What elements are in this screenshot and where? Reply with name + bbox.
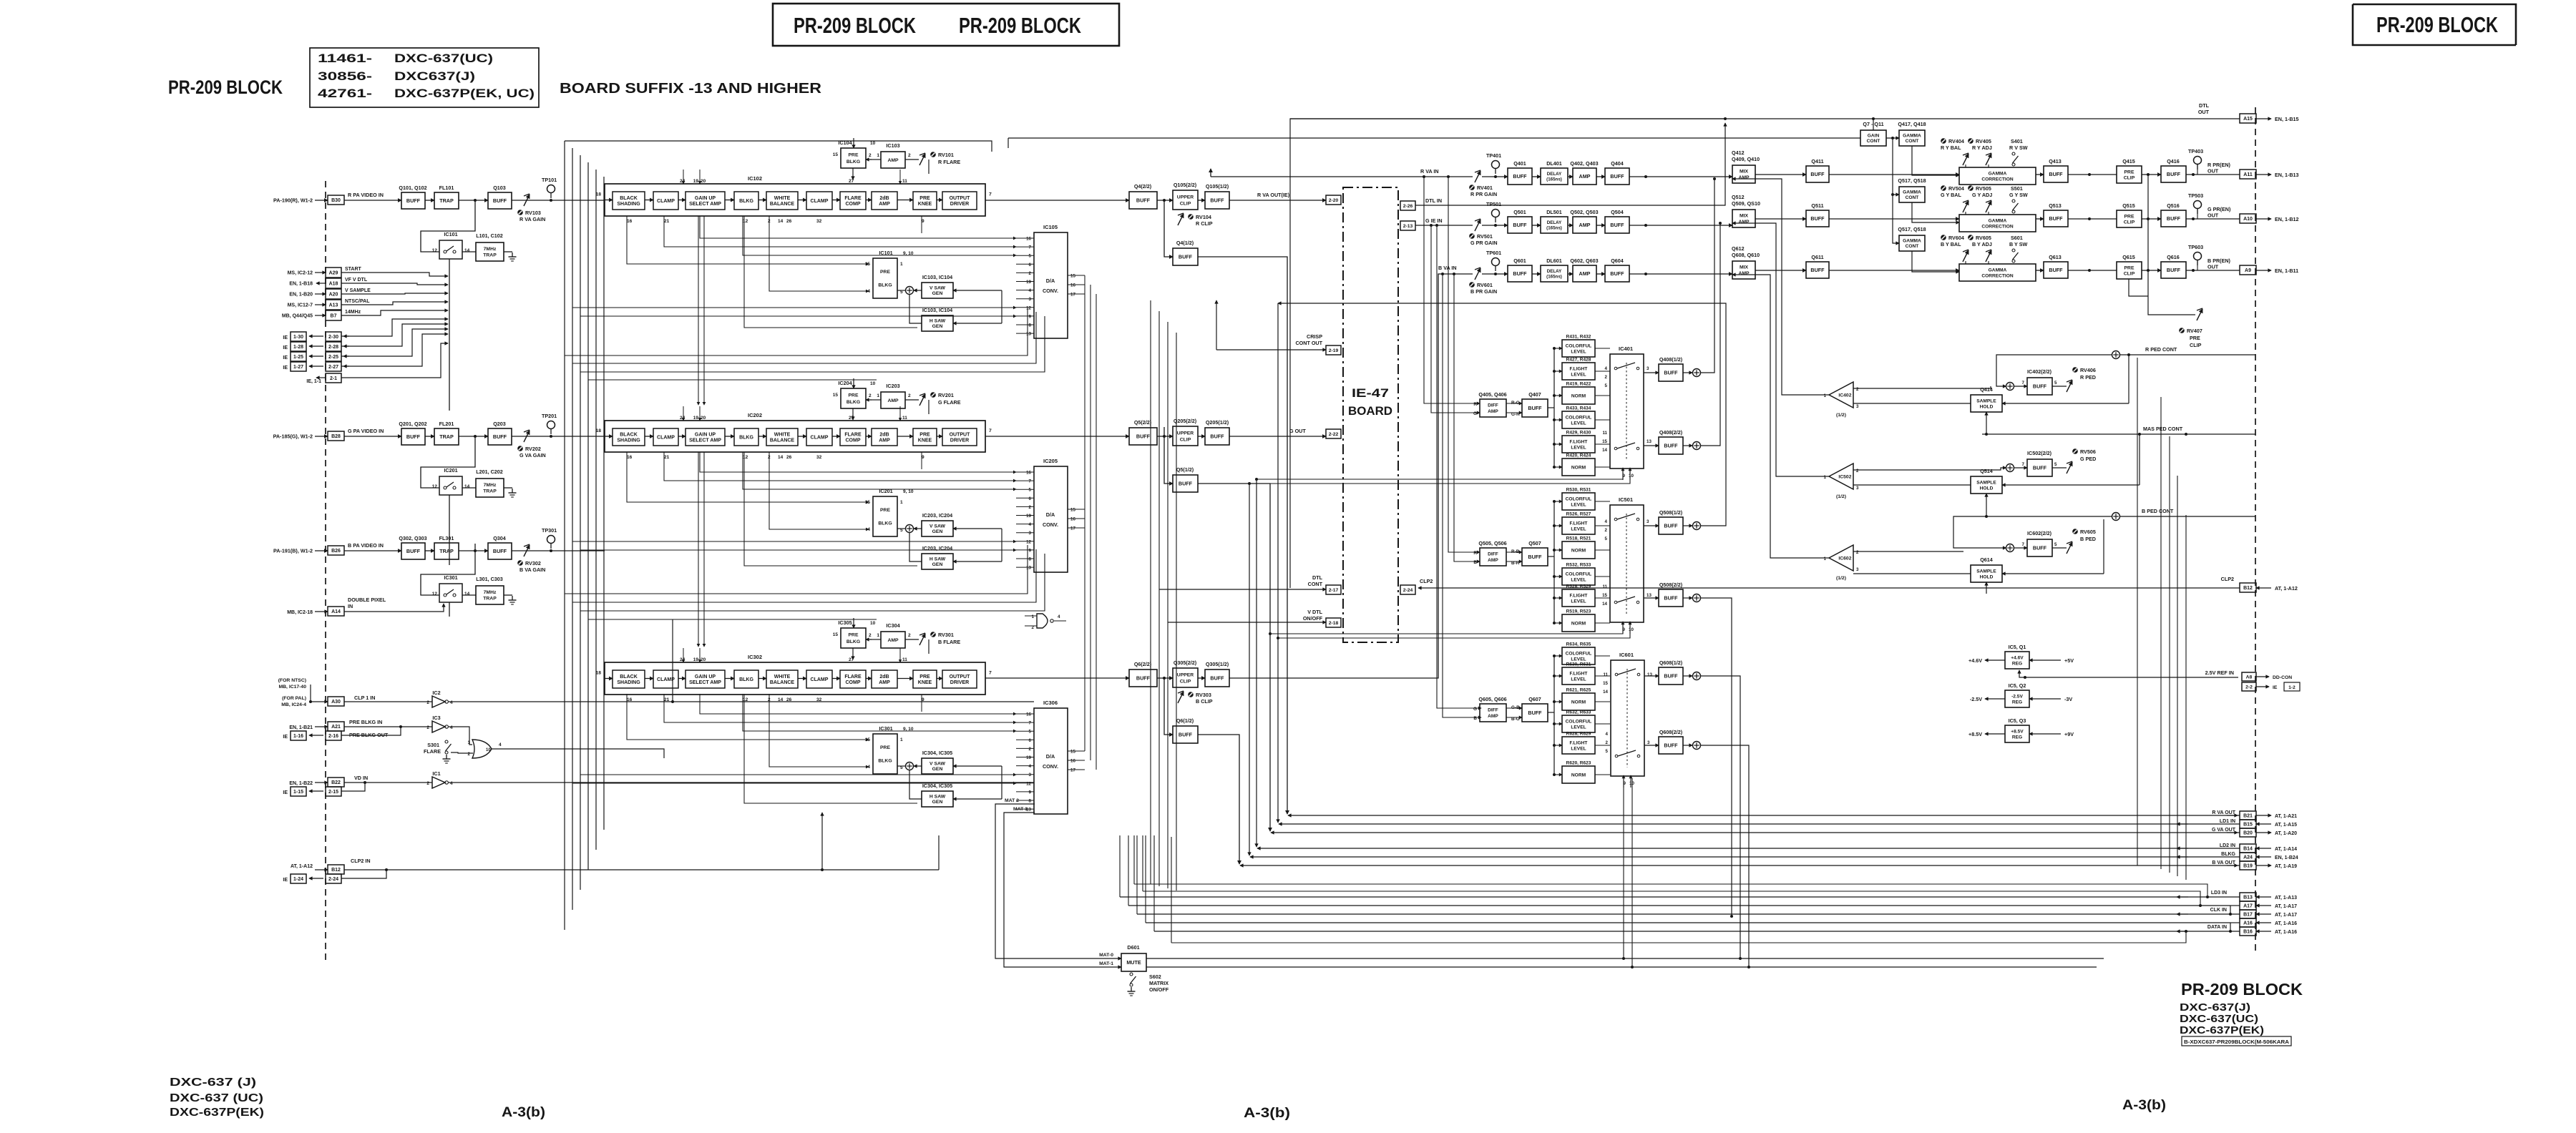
svg-text:2-24: 2-24 [1403,588,1413,593]
svg-text:IC203: IC203 [886,383,899,389]
svg-text:A-3(b): A-3(b) [1244,1106,1290,1121]
svg-text:9: 9 [1029,790,1032,795]
svg-text:4: 4 [450,700,453,705]
svg-text:GEN: GEN [932,767,943,772]
svg-text:LEVEL: LEVEL [1571,599,1586,604]
svg-text:LEVEL: LEVEL [1571,526,1586,531]
svg-text:32: 32 [816,697,822,702]
svg-text:IC3: IC3 [432,715,440,721]
svg-text:7: 7 [1029,721,1032,726]
svg-text:24: 24 [680,179,686,184]
svg-text:4: 4 [450,725,453,730]
svg-text:20: 20 [701,657,706,662]
svg-text:G Y ADJ: G Y ADJ [1972,192,1992,198]
svg-text:B7: B7 [331,314,337,319]
svg-text:8: 8 [1029,557,1032,562]
svg-text:Q612: Q612 [1732,245,1745,252]
svg-text:B CLIP: B CLIP [1196,698,1213,705]
svg-text:DTL: DTL [1312,574,1323,581]
svg-text:A17: A17 [2243,904,2253,909]
svg-text:TP503: TP503 [2188,192,2203,199]
svg-text:3: 3 [1856,567,1859,572]
svg-text:BLKG: BLKG [739,677,753,682]
svg-text:IE: IE [283,366,288,371]
svg-text:Q408(2/2): Q408(2/2) [1659,429,1683,436]
svg-text:19: 19 [693,416,699,421]
svg-text:B Y SW: B Y SW [2009,241,2028,247]
svg-text:18: 18 [595,671,601,676]
svg-text:PRE: PRE [2124,214,2135,219]
svg-text:CORRECTION: CORRECTION [1981,273,2014,278]
svg-text:V SAW: V SAW [930,762,945,767]
svg-text:BLKG: BLKG [847,400,860,405]
svg-text:TP101: TP101 [542,177,557,183]
svg-text:Q6(1/2): Q6(1/2) [1176,717,1194,724]
svg-text:CONT: CONT [1867,139,1880,144]
svg-text:CORRECTION: CORRECTION [1981,177,2014,182]
svg-text:DXC-637(UC): DXC-637(UC) [394,51,493,65]
svg-text:IC5, Q2: IC5, Q2 [2009,682,2026,689]
svg-text:DTL IN: DTL IN [1425,197,1442,204]
svg-text:(165ns): (165ns) [1546,226,1562,231]
svg-text:16: 16 [1026,471,1031,476]
svg-text:4: 4 [1029,764,1032,769]
svg-text:3: 3 [1646,366,1649,371]
svg-text:4: 4 [499,742,502,747]
svg-text:AT, 1-A14: AT, 1-A14 [2275,847,2297,852]
svg-text:RV605: RV605 [2080,529,2096,535]
svg-text:KNEE: KNEE [918,680,932,685]
svg-text:3: 3 [1029,297,1032,302]
svg-text:A-3(b): A-3(b) [2122,1098,2166,1113]
svg-text:RV101: RV101 [938,152,954,158]
svg-text:BLKG: BLKG [739,199,753,204]
svg-text:FL201: FL201 [439,421,454,427]
svg-text:Q305(1/2): Q305(1/2) [1206,661,1229,667]
svg-text:-3V: -3V [2064,696,2072,702]
svg-text:DELAY: DELAY [1547,269,1562,274]
svg-text:BUFF: BUFF [1810,171,1825,177]
svg-text:18: 18 [595,428,601,433]
svg-text:7: 7 [2022,542,2025,547]
svg-text:CLAMP: CLAMP [811,677,829,682]
svg-text:COLORFUL: COLORFUL [1566,343,1592,348]
svg-text:R519, R523: R519, R523 [1566,609,1591,614]
svg-text:D/A: D/A [1046,753,1055,760]
svg-text:REG: REG [2012,735,2022,740]
svg-text:(165ns): (165ns) [1546,275,1562,280]
svg-text:2dB: 2dB [879,196,889,201]
svg-text:11461-: 11461- [318,51,372,65]
svg-text:2-18: 2-18 [1329,621,1339,626]
svg-text:OUT: OUT [2207,168,2219,175]
svg-text:BUFF: BUFF [1610,222,1624,228]
svg-text:BUFF: BUFF [1136,197,1151,204]
svg-text:7: 7 [989,671,992,676]
svg-text:IC103, IC104: IC103, IC104 [922,274,952,280]
svg-text:BOARD: BOARD [1348,404,1392,418]
svg-text:PRE BLKG IN: PRE BLKG IN [349,719,382,725]
svg-text:(1/2): (1/2) [1836,413,1846,418]
svg-text:F.LIGHT: F.LIGHT [1570,366,1588,371]
svg-text:BUFF: BUFF [406,548,421,554]
svg-text:GEN: GEN [932,324,943,329]
svg-text:Q411: Q411 [1811,158,1823,165]
svg-text:12: 12 [1026,305,1031,310]
svg-text:13: 13 [1026,332,1031,337]
svg-text:14: 14 [1602,448,1607,453]
svg-text:8: 8 [1029,323,1032,328]
svg-text:R532, R533: R532, R533 [1566,563,1591,568]
svg-text:DXC-637P(EK): DXC-637P(EK) [170,1107,264,1119]
svg-text:AMP: AMP [1579,173,1591,180]
svg-text:R526, R527: R526, R527 [1566,512,1591,517]
svg-text:MIX: MIX [1740,265,1749,270]
svg-text:BLKG: BLKG [2221,852,2235,857]
svg-text:DXC-637 (UC): DXC-637 (UC) [170,1092,263,1104]
svg-text:1: 1 [1824,475,1827,480]
svg-text:-2.5V: -2.5V [1970,696,1982,702]
svg-text:A24: A24 [2243,855,2253,860]
svg-text:4: 4 [1605,519,1608,524]
svg-text:COMP: COMP [846,438,861,443]
svg-text:RV103: RV103 [525,210,541,216]
svg-text:12: 12 [432,248,438,253]
svg-text:OUT: OUT [2198,109,2210,115]
svg-text:14: 14 [778,697,784,702]
svg-text:16: 16 [1026,237,1031,242]
svg-text:CONT: CONT [1906,139,1919,144]
svg-text:ON/OFF: ON/OFF [1303,615,1323,622]
svg-text:B PR GAIN: B PR GAIN [1470,288,1497,295]
svg-text:BLKG: BLKG [878,759,892,764]
svg-text:Q514: Q514 [1980,468,1993,474]
svg-text:14: 14 [464,592,470,597]
svg-text:BUFF: BUFF [2049,267,2063,273]
svg-text:B VA GAIN: B VA GAIN [519,566,545,573]
svg-text:Q611: Q611 [1811,254,1823,260]
svg-text:R PED: R PED [2080,374,2096,381]
svg-text:IN: IN [348,603,353,609]
svg-text:A21: A21 [331,725,341,730]
svg-text:RV405: RV405 [1976,138,1991,144]
svg-text:PA-191(B), W1-2: PA-191(B), W1-2 [273,548,313,554]
svg-text:MIX: MIX [1740,214,1749,219]
svg-text:R PA VIDEO IN: R PA VIDEO IN [348,192,384,198]
svg-text:3: 3 [1647,740,1650,745]
svg-text:TP603: TP603 [2188,244,2203,250]
svg-text:IC204: IC204 [838,380,852,386]
svg-text:BUFF: BUFF [1810,215,1825,222]
svg-text:9: 9 [1029,548,1032,553]
svg-text:1: 1 [468,740,471,745]
svg-text:BUFF: BUFF [1210,197,1224,204]
svg-text:V SAMPLE: V SAMPLE [345,288,371,293]
svg-text:OUTPUT: OUTPUT [950,196,971,201]
svg-text:26: 26 [786,455,792,460]
svg-text:PRE: PRE [880,508,890,513]
svg-text:R VA IN: R VA IN [1420,168,1439,175]
svg-text:Q203: Q203 [493,421,506,427]
svg-text:14MHz: 14MHz [345,310,361,315]
svg-text:AT, 1-A21: AT, 1-A21 [2275,814,2297,819]
svg-text:2-26: 2-26 [1403,204,1413,209]
svg-text:Q614: Q614 [1980,556,1993,563]
svg-text:2-30: 2-30 [328,335,338,340]
svg-text:HOLD: HOLD [1980,486,1994,491]
svg-text:RV104: RV104 [1196,214,1211,220]
svg-text:15: 15 [1602,593,1607,598]
svg-text:AT, 1-A13: AT, 1-A13 [2275,896,2297,901]
svg-text:13: 13 [1646,593,1652,598]
svg-text:HOLD: HOLD [1980,574,1994,579]
svg-text:10: 10 [870,621,876,626]
svg-text:3: 3 [1646,519,1649,524]
svg-text:BUFF: BUFF [1513,222,1527,228]
svg-text:12: 12 [1026,781,1031,786]
svg-text:CLP 1 IN: CLP 1 IN [354,695,375,701]
svg-text:A9: A9 [2245,268,2251,273]
svg-text:10: 10 [486,748,491,752]
svg-text:Q412: Q412 [1732,149,1745,156]
svg-text:PRE: PRE [2124,265,2135,270]
svg-text:IC304, IC305: IC304, IC305 [922,750,952,756]
svg-text:IC502(2/2): IC502(2/2) [2027,450,2052,456]
svg-text:PRE: PRE [2124,170,2135,175]
svg-text:10: 10 [870,141,876,146]
svg-text:2-16: 2-16 [328,734,338,739]
svg-text:DXC637(J): DXC637(J) [394,69,475,83]
svg-text:G PED: G PED [2080,456,2096,462]
svg-text:Q515: Q515 [2122,202,2135,209]
svg-text:D/A: D/A [1046,511,1055,518]
svg-text:IE-47: IE-47 [1352,386,1389,400]
svg-text:11: 11 [902,416,907,421]
svg-text:LD1 IN: LD1 IN [2220,819,2235,824]
svg-text:CLAMP: CLAMP [811,199,829,204]
svg-text:2: 2 [908,393,911,398]
svg-text:LEVEL: LEVEL [1571,657,1586,662]
svg-text:TRAP: TRAP [439,548,454,554]
svg-text:15: 15 [833,152,839,157]
svg-text:IE: IE [283,335,288,340]
svg-text:BUFF: BUFF [1528,710,1542,716]
svg-text:B26: B26 [331,549,341,554]
svg-text:2: 2 [908,153,911,158]
svg-text:14: 14 [778,219,784,224]
svg-text:RV407: RV407 [2187,328,2202,334]
svg-text:CLIP: CLIP [2124,271,2135,276]
svg-text:BUFF: BUFF [406,433,421,440]
svg-text:Q615: Q615 [2122,254,2135,260]
svg-text:CLIP: CLIP [1180,201,1191,206]
svg-text:IE: IE [283,790,288,795]
svg-text:EN, 1-B20: EN, 1-B20 [289,293,313,298]
svg-text:1-30: 1-30 [293,335,303,340]
svg-text:16: 16 [627,455,633,460]
svg-text:BUFF: BUFF [1528,405,1542,411]
svg-text:R630, R631: R630, R631 [1566,662,1591,667]
svg-text:TRAP: TRAP [483,253,497,258]
svg-text:RV301: RV301 [938,632,954,638]
svg-text:R528, R529: R528, R529 [1566,584,1591,589]
svg-text:14: 14 [1603,690,1608,695]
svg-text:SHADING: SHADING [617,438,640,443]
svg-text:LD2 IN: LD2 IN [2220,843,2235,848]
svg-text:EN, 1-B15: EN, 1-B15 [2275,116,2299,122]
svg-text:MAT 1: MAT 1 [1013,807,1028,812]
svg-text:Q505, Q506: Q505, Q506 [1478,540,1506,546]
svg-text:BUFF: BUFF [1179,254,1193,260]
svg-text:11: 11 [1603,672,1608,677]
svg-text:1-27: 1-27 [293,365,303,370]
svg-text:BUFF: BUFF [2167,171,2181,177]
svg-text:Q6(2/2): Q6(2/2) [1134,661,1152,667]
svg-text:19: 19 [693,657,699,662]
svg-text:DRIVER: DRIVER [950,680,969,685]
svg-text:30856-: 30856- [318,69,372,83]
svg-text:BLKG: BLKG [847,639,860,644]
svg-text:IE: IE [283,735,288,740]
svg-text:21: 21 [664,697,670,702]
svg-text:Q5(2/2): Q5(2/2) [1134,419,1152,426]
svg-text:Q407: Q407 [1528,391,1541,398]
svg-text:PR-209 BLOCK: PR-209 BLOCK [2376,12,2498,37]
svg-text:CONV.: CONV. [1043,288,1058,294]
svg-text:B17: B17 [2243,913,2253,918]
svg-text:IC302: IC302 [748,654,762,660]
svg-text:COLORFUL: COLORFUL [1566,719,1592,724]
svg-text:CLIP: CLIP [1180,679,1191,684]
svg-text:BUFF: BUFF [1664,443,1678,449]
svg-text:IC5, Q1: IC5, Q1 [2009,644,2026,650]
svg-text:Q508(2/2): Q508(2/2) [1659,582,1683,588]
svg-text:2-27: 2-27 [328,365,338,370]
svg-text:6: 6 [1029,496,1032,501]
svg-text:Q415: Q415 [2122,158,2135,165]
svg-text:Q302, Q303: Q302, Q303 [399,535,426,541]
svg-text:Q513: Q513 [2049,202,2062,209]
svg-text:DL501: DL501 [1546,209,1562,215]
svg-text:15: 15 [1602,439,1607,444]
svg-text:A16: A16 [2243,921,2253,926]
svg-text:G Y BAL: G Y BAL [1941,192,1961,198]
svg-text:BUFF: BUFF [1664,523,1678,529]
svg-text:R VA OUT: R VA OUT [2212,810,2235,815]
svg-text:24: 24 [680,657,686,662]
svg-text:TP403: TP403 [2188,148,2203,154]
svg-text:G VA OUT: G VA OUT [2212,828,2236,833]
svg-text:REG: REG [2012,700,2022,705]
svg-text:B12: B12 [2243,586,2253,591]
svg-text:LD3 IN: LD3 IN [2211,891,2227,896]
svg-text:BUFF: BUFF [2033,383,2047,390]
svg-text:R FLARE: R FLARE [938,159,960,165]
svg-text:AMP: AMP [879,202,890,207]
svg-text:PRE: PRE [919,675,930,680]
svg-text:1: 1 [900,500,903,505]
svg-text:Q405, Q406: Q405, Q406 [1478,391,1506,398]
svg-text:IC306: IC306 [1043,700,1058,706]
svg-text:AMP: AMP [887,638,899,643]
svg-text:IC203, IC204: IC203, IC204 [922,545,952,551]
svg-text:LEVEL: LEVEL [1571,677,1586,682]
svg-text:CLAMP: CLAMP [657,199,675,204]
svg-text:B VA OUT: B VA OUT [2212,860,2235,865]
svg-text:EN, 1-B12: EN, 1-B12 [2275,216,2299,222]
svg-text:COMP: COMP [846,680,861,685]
svg-text:9: 9 [922,455,924,460]
svg-text:11: 11 [1602,584,1607,589]
svg-text:FL101: FL101 [439,185,454,191]
svg-text:IE: IE [2273,685,2278,690]
svg-text:BUFF: BUFF [2049,215,2063,222]
svg-text:EN, 1-B22: EN, 1-B22 [289,781,313,786]
svg-text:1: 1 [900,737,903,742]
svg-text:IE: IE [283,355,288,360]
svg-text:CONV.: CONV. [1043,763,1058,770]
svg-text:2: 2 [869,153,872,158]
svg-text:16: 16 [627,219,633,224]
svg-text:2dB: 2dB [879,432,889,437]
svg-text:H SAW: H SAW [930,557,946,562]
svg-text:19: 19 [1026,755,1031,760]
svg-text:OUTPUT: OUTPUT [950,675,971,680]
svg-text:7MHz: 7MHz [484,590,497,595]
svg-text:R Y ADJ: R Y ADJ [1972,144,1992,151]
svg-text:GAMMA: GAMMA [1989,268,2007,273]
svg-text:AMP: AMP [1579,222,1591,228]
svg-text:A20: A20 [329,293,338,298]
svg-text:+9V: +9V [2064,731,2074,737]
svg-text:Q517, Q518: Q517, Q518 [1898,226,1926,232]
svg-text:GAMMA: GAMMA [1903,239,1921,244]
svg-text:Q613: Q613 [2049,254,2062,260]
svg-text:BLKG: BLKG [739,435,753,440]
svg-text:MB, Q44/Q45: MB, Q44/Q45 [282,314,313,319]
svg-text:Q103: Q103 [493,185,506,191]
svg-text:Q304: Q304 [493,535,506,541]
svg-text:TP301: TP301 [542,527,557,534]
svg-text:IC104: IC104 [838,139,852,146]
svg-text:PR-209 BLOCK: PR-209 BLOCK [168,77,283,98]
svg-text:IC101: IC101 [444,231,457,237]
svg-text:PA-185(G), W1-2: PA-185(G), W1-2 [273,433,313,440]
svg-text:19: 19 [693,179,699,184]
svg-text:BUFF: BUFF [1179,732,1193,738]
svg-text:FLARE: FLARE [844,196,862,201]
svg-text:NORM: NORM [1571,393,1586,398]
svg-text:PA-190(R), W1-2: PA-190(R), W1-2 [273,197,313,204]
svg-text:Q101, Q102: Q101, Q102 [399,185,426,191]
svg-text:PRE: PRE [919,432,930,437]
svg-text:VF V DTL: VF V DTL [345,278,368,283]
svg-text:DELAY: DELAY [1547,220,1562,225]
svg-text:G VA GAIN: G VA GAIN [519,452,546,458]
svg-text:B12: B12 [331,868,341,873]
svg-text:G PR GAIN: G PR GAIN [1470,240,1498,246]
svg-text:R518, R521: R518, R521 [1566,536,1591,541]
svg-text:BUFF: BUFF [2167,215,2181,222]
svg-text:Q205(1/2): Q205(1/2) [1206,419,1229,426]
svg-text:R420, R424: R420, R424 [1566,453,1591,458]
svg-text:NORM: NORM [1571,621,1586,626]
svg-text:2-19: 2-19 [1329,348,1339,353]
svg-text:B PED: B PED [2080,536,2096,542]
svg-text:AMP: AMP [887,398,899,403]
svg-text:COLORFUL: COLORFUL [1566,651,1592,656]
svg-text:2.5V REF IN: 2.5V REF IN [2205,669,2234,676]
